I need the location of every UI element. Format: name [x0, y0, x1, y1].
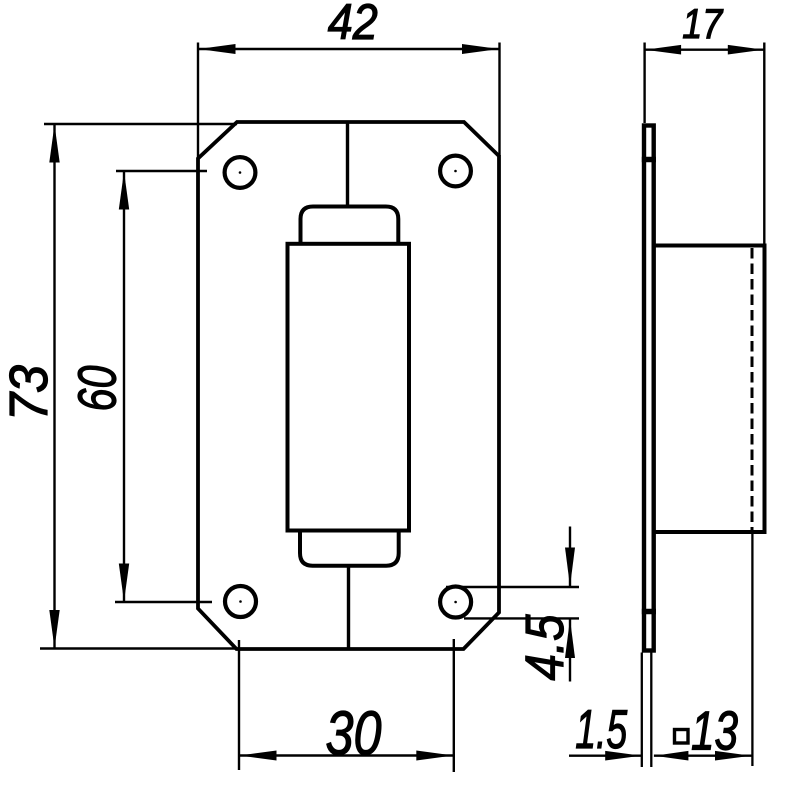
svg-text:73: 73 [0, 365, 59, 421]
dim 1.5 arrow pointing right at strip left edge [605, 751, 641, 761]
center line lower segment [347, 566, 350, 649]
side view body (square tube) [654, 246, 765, 533]
dim 13 dimension line [654, 755, 753, 757]
dim 60 label (rotated) [68, 366, 128, 412]
plate outline front view (octagon with chamfered corners) [198, 122, 499, 649]
dim 17 dimension line [645, 49, 765, 51]
dim 42 left extension line [197, 43, 199, 159]
strip crossbar lower [642, 609, 656, 615]
dim 30 right extension line [453, 639, 455, 772]
square symbol for 13 [675, 730, 689, 744]
dim 4.5 down arrow [565, 548, 575, 587]
hole top-right [440, 156, 471, 187]
dim 17 left extension line [643, 43, 645, 124]
dim 17 left arrow [645, 45, 681, 55]
dim 60 top extension line [116, 170, 207, 172]
dim 42 dimension line [198, 48, 500, 50]
dim 73 top extension line [44, 123, 237, 125]
dim 4.5 top tangent extension line [446, 586, 579, 588]
dim 1.5 / 13 dimension line left part [569, 755, 642, 757]
main central rectangle [288, 244, 410, 531]
hole bottom-right [440, 587, 471, 618]
dim 73 bottom extension line [40, 647, 236, 649]
svg-text:30: 30 [326, 700, 382, 769]
hole bottom-left [225, 586, 256, 617]
strip crossbar upper [642, 157, 656, 163]
dim 60 bottom extension line [115, 601, 212, 603]
bottom tab (rounded) [300, 531, 399, 566]
svg-text:60: 60 [68, 366, 128, 412]
dim 13 right arrow pointing right [715, 751, 751, 761]
dim 1.5 left extension below strip [641, 653, 643, 768]
side view flange strip [644, 126, 654, 651]
dim 4.5 up arrow [565, 619, 575, 658]
dim 1.5 right extension below strip [650, 653, 652, 768]
dim 73 dimension line [53, 124, 55, 649]
dim 13 right extension line below body [751, 532, 753, 766]
dim 73 top arrow [49, 125, 59, 163]
dim 42 right arrow [462, 44, 499, 54]
dim 73 label (rotated) [0, 365, 59, 421]
svg-text:4.5: 4.5 [515, 614, 575, 681]
dim 60 top arrow [119, 172, 129, 210]
hidden dashed line of tube wall [751, 248, 754, 530]
dim 60 dimension line [123, 171, 125, 602]
dim 4.5 lower dimension line [569, 618, 571, 681]
dim 73 bottom arrow [49, 610, 59, 648]
dim 30 right arrow [416, 751, 453, 761]
dim 60 bottom arrow [119, 564, 129, 602]
svg-text:42: 42 [328, 0, 378, 50]
dim 30 dimension line [239, 754, 454, 756]
top tab (rounded) [301, 207, 399, 244]
dim 4.5 bottom tangent extension line [464, 617, 579, 619]
dim 4.5 upper dimension line [569, 527, 571, 588]
dim 17 right arrow [728, 45, 764, 55]
dim 17 right extension line [763, 43, 765, 246]
svg-text:1.5: 1.5 [575, 698, 627, 760]
center line upper segment [346, 122, 349, 205]
dim 42 right extension line [498, 43, 500, 157]
dim 42 left arrow [199, 44, 236, 54]
dim 30 left arrow [240, 751, 277, 761]
hole top-left [225, 157, 256, 188]
dim 30 left extension line [238, 640, 240, 770]
dim 4.5 label (rotated) [515, 614, 575, 681]
dim 13 left arrow pointing left [654, 751, 688, 761]
svg-text:13: 13 [691, 700, 738, 762]
svg-text:17: 17 [682, 0, 723, 47]
